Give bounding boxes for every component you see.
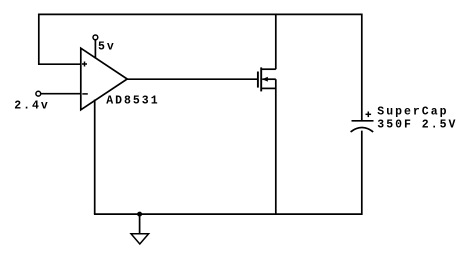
wire right rail lower <box>361 131 363 215</box>
junction ground node <box>137 212 142 217</box>
wire 5v supply stem <box>94 40 96 59</box>
wire top rail <box>38 13 362 15</box>
capacitor C1 supercap <box>351 112 374 132</box>
wire bottom rail <box>94 213 363 215</box>
op-amp U1 <box>81 48 127 110</box>
wire drain to top rail <box>275 14 277 70</box>
terminal 2.4v <box>36 91 41 96</box>
terminal 5v <box>93 35 98 40</box>
wire right rail upper <box>361 14 363 121</box>
svg-text:SuperCap: SuperCap <box>377 105 448 118</box>
wire op-amp ground stem <box>94 100 96 215</box>
wire left feedback vertical <box>38 14 40 65</box>
transistor Q1 nmos <box>258 67 276 91</box>
wire op-amp output to gate <box>127 78 258 80</box>
svg-text:350F 2.5V: 350F 2.5V <box>377 119 457 132</box>
wire source to bottom rail <box>275 79 277 214</box>
ground <box>131 214 149 244</box>
svg-text:AD8531: AD8531 <box>106 94 159 107</box>
svg-text:2.4v: 2.4v <box>14 100 50 113</box>
wire to op-amp inverting input <box>41 93 82 95</box>
wire to op-amp noninverting input <box>38 63 81 65</box>
svg-text:5v: 5v <box>98 40 116 53</box>
